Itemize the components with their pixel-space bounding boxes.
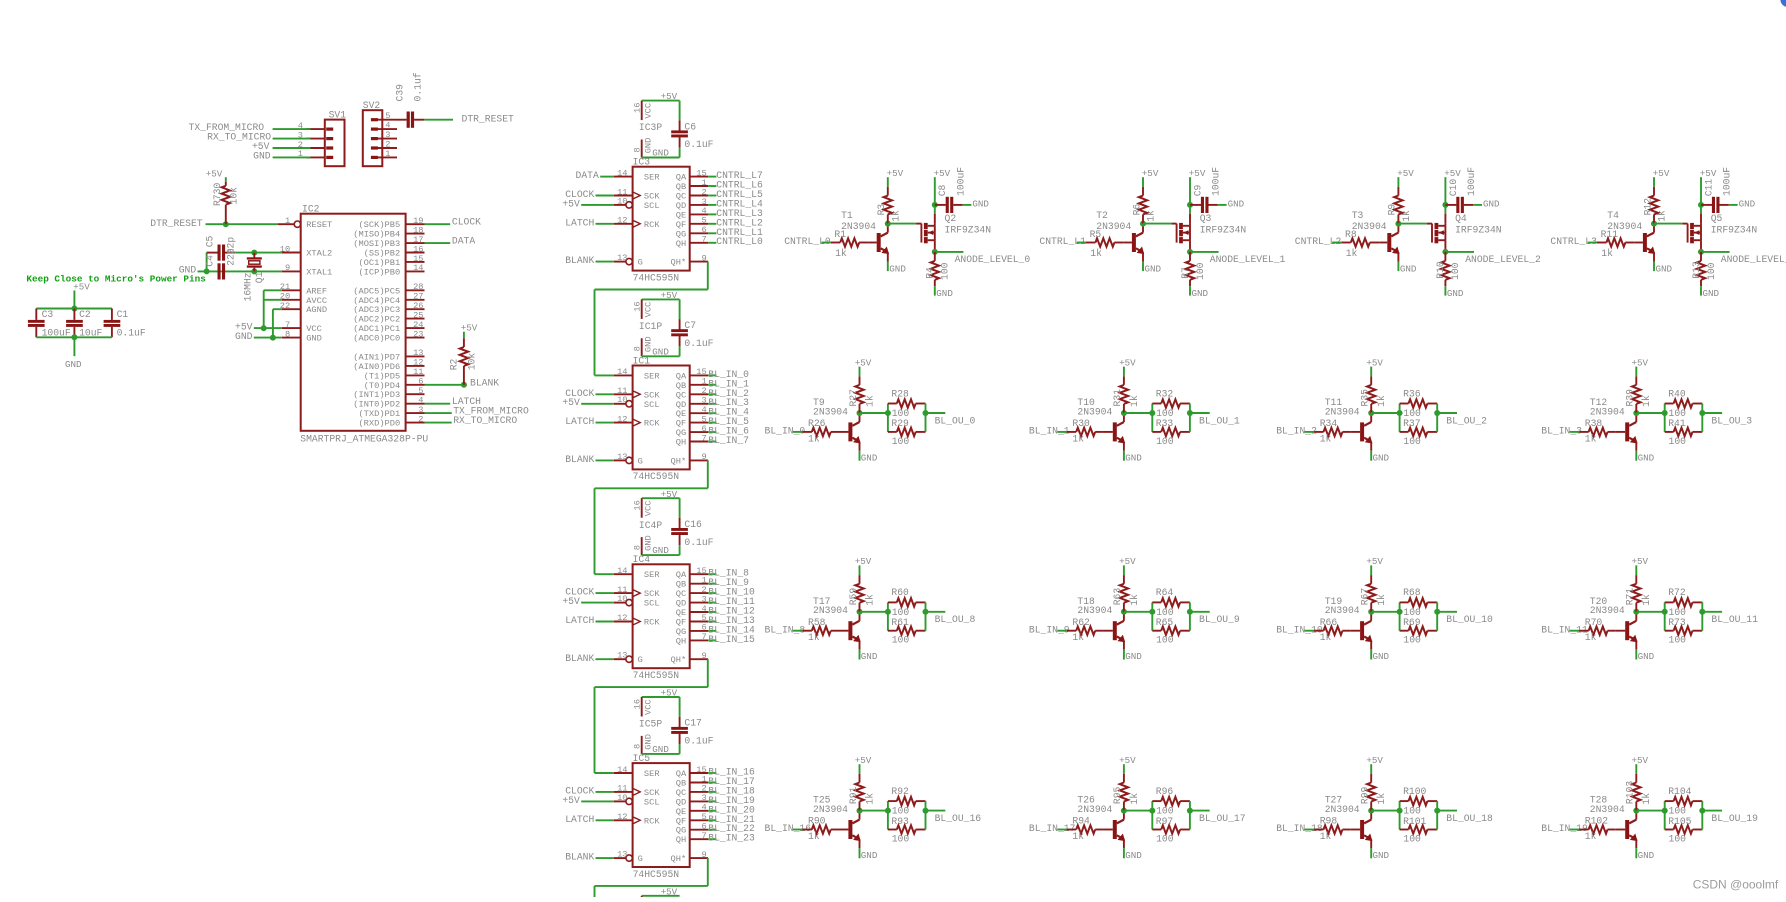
- node bank right junction: [923, 410, 929, 416]
- svg-text:R39: R39: [1625, 389, 1636, 407]
- wire CNTRL_L2 to R8: [1332, 242, 1341, 244]
- resistor R61 100: [888, 630, 897, 632]
- svg-text:R99: R99: [1360, 786, 1371, 804]
- svg-text:+5V: +5V: [1366, 556, 1383, 567]
- wire BL_IN_13: [708, 621, 716, 623]
- svg-text:25: 25: [413, 310, 423, 320]
- svg-text:2: 2: [701, 784, 706, 794]
- wire T1 collector to Q2 gate: [888, 223, 916, 225]
- svg-text:2N3904: 2N3904: [841, 221, 876, 232]
- IC2 pin 4 (INT0)PD2: [406, 403, 425, 405]
- svg-text:RCK: RCK: [644, 816, 660, 826]
- svg-text:QH*: QH*: [671, 456, 687, 466]
- node bank right junction: [1187, 609, 1193, 615]
- connector SV2 pin 5: [375, 119, 398, 121]
- svg-text:QA: QA: [676, 570, 687, 580]
- resistor R68 100: [1400, 601, 1409, 603]
- transistor T17 2N3904: [839, 630, 849, 632]
- svg-text:74HC595N: 74HC595N: [633, 471, 680, 482]
- wire +5V to IC3 SCL: [581, 204, 614, 206]
- wire GND to IC2 pin 8: [254, 337, 282, 339]
- wire bank left vertical: [887, 602, 889, 630]
- svg-text:QB: QB: [676, 182, 686, 192]
- wire bank left vertical: [1399, 602, 1401, 630]
- svg-text:DATA: DATA: [576, 170, 599, 181]
- wire BL_IN_18: [708, 791, 716, 793]
- IC2 pin 20 AVCC: [282, 299, 301, 301]
- resistor R34 1k: [1314, 431, 1324, 433]
- +5V supply at R27: [859, 367, 861, 377]
- wire ANODE_LEVEL_0: [935, 251, 964, 253]
- +5V supply at R9: [1397, 177, 1399, 187]
- svg-text:R29: R29: [891, 418, 909, 429]
- svg-text:+5V: +5V: [1632, 755, 1649, 766]
- wire Q5 drain: [1700, 240, 1702, 252]
- IC3 pin 1 QB: [690, 185, 708, 187]
- IC2 pin 28 (ADC5)PC5: [406, 289, 425, 291]
- IC IC2 SMARTPRJ_ATMEGA328P-PU body: [301, 214, 406, 431]
- node T26 collector junction: [1121, 808, 1127, 814]
- node T4 collector junction: [1651, 221, 1657, 227]
- wire BL_IN_3 to R38: [1570, 431, 1580, 433]
- wire T19 collector to resistor bank: [1371, 611, 1399, 613]
- svg-text:T1: T1: [841, 210, 853, 221]
- node +5V rail junction: [71, 306, 77, 312]
- svg-text:SCK: SCK: [644, 589, 660, 599]
- wire BL_IN_21: [708, 819, 716, 821]
- svg-text:9: 9: [701, 651, 706, 661]
- wire shift chain stage 4: [707, 858, 709, 886]
- svg-text:15: 15: [696, 765, 706, 775]
- svg-text:Q5: Q5: [1711, 213, 1723, 224]
- node bank left junction: [1397, 808, 1403, 814]
- node C4/GND junction: [204, 268, 210, 274]
- wire T25 collector: [859, 811, 861, 820]
- +5V supply at R103: [1635, 764, 1637, 774]
- wire BL_OU_17: [1190, 810, 1210, 812]
- capacitor C6 0.1uF: [679, 101, 681, 121]
- svg-text:1: 1: [385, 149, 390, 159]
- svg-text:+5V: +5V: [1189, 168, 1206, 179]
- IC2 pin 27 (ADC4)PC4: [406, 299, 425, 301]
- wire BL_OU_9: [1190, 611, 1210, 613]
- wire CNTRL_L5: [708, 195, 716, 197]
- svg-text:16: 16: [633, 301, 643, 311]
- IC5 pin 1 QB: [690, 782, 708, 784]
- svg-text:IRF9Z34N: IRF9Z34N: [1200, 224, 1247, 235]
- svg-text:+5V: +5V: [1119, 357, 1136, 368]
- wire T27 emitter to GND: [1370, 839, 1372, 848]
- svg-text:2N3904: 2N3904: [1352, 221, 1387, 232]
- svg-text:100: 100: [892, 834, 910, 845]
- resistor R35 1k: [1370, 404, 1372, 413]
- svg-text:R70: R70: [1585, 617, 1603, 628]
- IC2 pin 21 AREF: [282, 289, 301, 291]
- wire BL_IN_22: [708, 829, 716, 831]
- resistor R64 100: [1152, 601, 1161, 603]
- svg-text:R3: R3: [876, 204, 887, 216]
- wire bank left vertical: [1664, 404, 1666, 432]
- svg-text:+5V: +5V: [855, 755, 872, 766]
- node DTR_RESET / R730 junction: [223, 221, 229, 227]
- node T18 collector junction: [1121, 609, 1127, 615]
- IC2 pin 15 (OC1)PB1: [406, 261, 425, 263]
- wire AVCC: [264, 299, 282, 301]
- wire BL_IN_20: [708, 810, 716, 812]
- svg-text:(MISO)PB4: (MISO)PB4: [353, 230, 400, 240]
- svg-text:T3: T3: [1352, 210, 1364, 221]
- svg-text:23: 23: [413, 329, 423, 339]
- svg-text:R30: R30: [1072, 418, 1090, 429]
- svg-text:IC5: IC5: [633, 753, 651, 764]
- +5V supply at R71: [1635, 565, 1637, 575]
- +5V supply at R35: [1370, 367, 1372, 377]
- connector SV1 pin 2: [306, 147, 325, 149]
- svg-text:RCK: RCK: [644, 220, 660, 230]
- node T12 collector junction: [1633, 410, 1639, 416]
- resistor R90 1k: [802, 829, 812, 831]
- svg-text:+5V: +5V: [1366, 357, 1383, 368]
- svg-text:RX_TO_MICRO: RX_TO_MICRO: [453, 415, 517, 426]
- IC5 pin 2 QC: [690, 791, 708, 793]
- wire BL_IN_3: [708, 403, 716, 405]
- svg-text:12: 12: [413, 358, 423, 368]
- svg-text:+5V: +5V: [934, 168, 951, 179]
- svg-text:100: 100: [1195, 262, 1206, 280]
- IC2 pin 1 RESET: [278, 223, 294, 225]
- svg-text:GND: GND: [1125, 452, 1142, 463]
- svg-text:SCK: SCK: [644, 788, 660, 798]
- IC IC4 74HC595N body: [633, 564, 690, 668]
- svg-text:4: 4: [701, 803, 706, 813]
- svg-text:QF: QF: [676, 220, 686, 230]
- IC2 pin 13 (AIN1)PD7: [406, 355, 425, 357]
- svg-text:GND: GND: [235, 331, 253, 342]
- svg-text:0.1uF: 0.1uF: [684, 338, 713, 349]
- svg-text:18: 18: [413, 225, 423, 235]
- svg-text:R96: R96: [1156, 786, 1174, 797]
- wire CLOCK to IC1 SCK: [596, 393, 614, 395]
- svg-text:7: 7: [701, 235, 706, 245]
- resistor R28 100: [888, 403, 897, 405]
- capacitor C2 10uF: [73, 309, 75, 320]
- svg-text:4: 4: [701, 206, 706, 216]
- svg-text:R10: R10: [1435, 261, 1446, 279]
- wire T19 emitter to GND: [1370, 640, 1372, 649]
- svg-text:C6: C6: [684, 121, 696, 132]
- wire +5V rail: [36, 308, 112, 310]
- IC2 pin 16 (SS)PB2: [406, 252, 425, 254]
- wire T26 collector to resistor bank: [1124, 810, 1152, 812]
- svg-text:IRF9Z34N: IRF9Z34N: [1711, 224, 1758, 235]
- IC2 pin 22 AGND: [282, 308, 301, 310]
- svg-text:1k: 1k: [864, 594, 875, 606]
- svg-text:7: 7: [701, 433, 706, 443]
- wire C8 to GND: [963, 204, 972, 206]
- svg-text:T2: T2: [1096, 210, 1108, 221]
- svg-text:C9: C9: [1192, 184, 1203, 196]
- svg-text:+5V: +5V: [562, 596, 580, 607]
- wire LATCH to IC3 RCK: [596, 223, 614, 225]
- wire bank right vertical: [1701, 602, 1703, 630]
- svg-text:2: 2: [701, 585, 706, 595]
- wire T2 collector to Q3 gate: [1143, 223, 1171, 225]
- svg-text:IRF9Z34N: IRF9Z34N: [945, 224, 992, 235]
- svg-text:CSDN @ooolmf: CSDN @ooolmf: [1693, 877, 1779, 891]
- svg-text:7: 7: [701, 831, 706, 841]
- IC2 pin 6 (T0)PD4: [406, 384, 425, 386]
- svg-text:+5V: +5V: [1653, 168, 1670, 179]
- svg-text:R59: R59: [848, 588, 859, 606]
- IC3 pin 2 QC: [690, 195, 708, 197]
- svg-text:GND: GND: [1125, 651, 1142, 662]
- svg-text:R102: R102: [1585, 816, 1608, 827]
- wire T10 collector to resistor bank: [1124, 412, 1152, 414]
- svg-text:BL_OU_18: BL_OU_18: [1446, 813, 1493, 824]
- node bank left junction: [1149, 609, 1155, 615]
- capacitor C10 100uF: [1445, 204, 1456, 206]
- svg-text:BL_IN_7: BL_IN_7: [708, 435, 749, 446]
- resistor R37 100: [1400, 431, 1409, 433]
- wire bank right vertical: [1701, 404, 1703, 432]
- svg-text:GND: GND: [889, 263, 906, 274]
- wire BL_IN_2: [708, 393, 716, 395]
- svg-text:2N3904: 2N3904: [1077, 804, 1112, 815]
- svg-text:SER: SER: [644, 371, 660, 381]
- IC3 pin 13 G: [614, 261, 626, 263]
- IC2 pin 7 VCC: [282, 327, 301, 329]
- wire +5V to IC1 SCL: [581, 403, 614, 405]
- wire BL_IN_16 to R90: [793, 829, 803, 831]
- IC2 pin 26 (ADC3)PC3: [406, 308, 425, 310]
- wire bank right vertical: [925, 404, 927, 432]
- node bank right junction: [1699, 410, 1705, 416]
- IC2 pin 14 (ICP)PB0: [406, 270, 425, 272]
- svg-text:G: G: [638, 258, 643, 268]
- svg-text:14: 14: [617, 765, 627, 775]
- capacitor C9 100uF: [1190, 204, 1201, 206]
- capacitor C7 0.1uF: [679, 299, 681, 319]
- wire T28 collector: [1635, 811, 1637, 820]
- wire CNTRL_L6: [708, 185, 716, 187]
- IC3 pin 5 QF: [690, 223, 708, 225]
- IC5 pin 12 RCK: [614, 819, 633, 821]
- IC1 pin 2 QC: [690, 393, 708, 395]
- IC5 pin 4 QE: [690, 810, 708, 812]
- wire T11 emitter to GND: [1370, 442, 1372, 451]
- IC1 pin 15 QA: [690, 374, 708, 376]
- transistor T1 2N3904: [869, 242, 877, 244]
- svg-text:BLANK: BLANK: [565, 653, 594, 664]
- svg-text:IC4P: IC4P: [639, 520, 662, 531]
- wire BL_IN_7: [708, 441, 716, 443]
- wire BL_IN_10 to R66: [1305, 630, 1315, 632]
- svg-text:2N3904: 2N3904: [1077, 605, 1112, 616]
- svg-text:VCC: VCC: [643, 501, 653, 517]
- resistor R73 100: [1665, 630, 1674, 632]
- svg-text:SV2: SV2: [363, 100, 381, 111]
- IC5 pin 14 SER: [614, 772, 633, 774]
- node T11 collector junction: [1368, 410, 1374, 416]
- svg-text:IRF9Z34N: IRF9Z34N: [1455, 224, 1502, 235]
- ground at R13: [1700, 286, 1702, 295]
- svg-text:1k: 1k: [1129, 395, 1140, 407]
- resistor R94 1k: [1067, 829, 1076, 831]
- wire BL_IN_14: [708, 630, 716, 632]
- svg-text:15: 15: [696, 566, 706, 576]
- wire CLOCK to IC5 SCK: [596, 791, 614, 793]
- node ANODE_LEVEL_0 junction: [932, 249, 938, 255]
- svg-text:R41: R41: [1668, 418, 1686, 429]
- IC4 pin 7 QH: [690, 639, 708, 641]
- resistor R3 1k: [887, 214, 889, 223]
- resistor R102 1k: [1579, 829, 1589, 831]
- IC2 pin 19 (SCK)PB5: [406, 223, 425, 225]
- wire BL_OU_1: [1190, 412, 1210, 414]
- svg-text:2: 2: [701, 187, 706, 197]
- IC1 pin 10 SCL: [614, 403, 626, 405]
- resistor R58 1k: [802, 630, 812, 632]
- node crystal top junction: [251, 250, 257, 256]
- svg-text:1k: 1k: [1072, 433, 1084, 444]
- resistor R72 100: [1665, 601, 1674, 603]
- svg-text:+5V: +5V: [206, 168, 223, 179]
- resistor R98 1k: [1314, 829, 1324, 831]
- svg-text:7: 7: [701, 632, 706, 642]
- resistor R62 1k: [1067, 630, 1076, 632]
- svg-text:R64: R64: [1156, 587, 1174, 598]
- node bank right junction: [1699, 808, 1705, 814]
- wire CNTRL_L0 to R1: [822, 242, 831, 244]
- wire shift chain stage 2: [707, 460, 709, 488]
- +5V supply at R91: [859, 764, 861, 774]
- node T9 collector junction: [857, 410, 863, 416]
- wire T9 collector to resistor bank: [860, 412, 888, 414]
- wire bank left vertical: [887, 801, 889, 829]
- connector SV1 pin 1: [306, 156, 325, 158]
- wire CNTRL_L4: [708, 204, 716, 206]
- svg-text:QH: QH: [676, 438, 686, 448]
- svg-text:SCL: SCL: [644, 201, 660, 211]
- transistor T3 2N3904: [1379, 242, 1387, 244]
- svg-text:(INT1)PD3: (INT1)PD3: [353, 390, 400, 400]
- svg-text:2N3904: 2N3904: [1590, 605, 1625, 616]
- transistor T12 2N3904: [1615, 431, 1625, 433]
- IC1 pin 5 QF: [690, 422, 708, 424]
- wire bank right vertical: [1436, 602, 1438, 630]
- svg-text:R32: R32: [1156, 388, 1174, 399]
- svg-text:QH: QH: [676, 636, 686, 646]
- wire T17 collector: [859, 612, 861, 621]
- wire C11 to GND: [1729, 204, 1738, 206]
- svg-text:T4: T4: [1607, 210, 1619, 221]
- svg-text:8: 8: [285, 329, 290, 339]
- wire T19 collector: [1370, 612, 1372, 621]
- resistor R95 1k: [1123, 802, 1125, 811]
- resistor R92 100: [888, 800, 897, 802]
- IC1 pin 11 SCK: [614, 393, 633, 395]
- IC3 pin 3 QD: [690, 204, 708, 206]
- svg-text:ANODE_LEVEL_3: ANODE_LEVEL_3: [1721, 254, 1786, 265]
- svg-text:1k: 1k: [1320, 831, 1332, 842]
- svg-text:8: 8: [633, 346, 643, 351]
- wire T4 emitter to GND: [1653, 252, 1655, 261]
- node bank left junction: [885, 609, 891, 615]
- wire BL_IN_12: [708, 611, 716, 613]
- resistor R11 1k: [1597, 242, 1607, 244]
- svg-text:XTAL2: XTAL2: [306, 249, 332, 259]
- wire BL_OU_2: [1437, 412, 1457, 414]
- svg-text:12: 12: [617, 414, 627, 424]
- svg-text:1: 1: [285, 216, 290, 226]
- svg-text:C39: C39: [395, 84, 406, 102]
- wire BL_IN_8 to R58: [793, 630, 803, 632]
- wire T9 collector: [859, 413, 861, 422]
- connector SV2 pin 1: [375, 156, 398, 158]
- svg-text:1: 1: [701, 178, 706, 188]
- svg-text:DTR_RESET: DTR_RESET: [462, 114, 515, 125]
- wire bank left vertical: [1399, 801, 1401, 829]
- svg-text:(ADC2)PC2: (ADC2)PC2: [353, 315, 400, 325]
- resistor R33 100: [1152, 431, 1161, 433]
- node BLANK / R2 junction: [461, 382, 467, 388]
- IC1 pin 7 QH: [690, 441, 708, 443]
- svg-text:9: 9: [701, 253, 706, 263]
- svg-text:BL_OU_2: BL_OU_2: [1446, 415, 1487, 426]
- resistor R10 100: [1444, 252, 1446, 261]
- wire C9 to GND: [1218, 204, 1227, 206]
- wire C5 to IC2 XTAL2: [235, 252, 282, 254]
- wire +5V to IC2 pin 7: [254, 327, 282, 329]
- wire T28 emitter to GND: [1635, 839, 1637, 848]
- connector SV2: [363, 110, 383, 166]
- svg-text:GND: GND: [652, 744, 669, 755]
- svg-text:1k: 1k: [864, 395, 875, 407]
- wire T12 emitter to GND: [1635, 442, 1637, 451]
- wire T10 collector: [1123, 413, 1125, 422]
- resistor R70 1k: [1579, 630, 1589, 632]
- +5V supply at R39: [1635, 367, 1637, 377]
- wire BL_IN_0 to R26: [793, 431, 803, 433]
- +5V supply at R63: [1123, 565, 1125, 575]
- IC5 pin 9 QH*: [690, 857, 708, 859]
- svg-text:R98: R98: [1320, 816, 1338, 827]
- IC2 pin 25 (ADC2)PC2: [406, 318, 425, 320]
- IC1 pin 3 QD: [690, 403, 708, 405]
- svg-text:1k: 1k: [864, 793, 875, 805]
- svg-text:VCC: VCC: [306, 324, 322, 334]
- node bank left junction: [1662, 808, 1668, 814]
- svg-text:BL_IN_15: BL_IN_15: [708, 634, 755, 645]
- connector SV2 pin 2: [375, 147, 398, 149]
- +5V supply at R59: [859, 565, 861, 575]
- transistor Q2 IRF9Z34N: [920, 224, 922, 243]
- svg-text:IC1P: IC1P: [639, 321, 662, 332]
- svg-text:CLOCK: CLOCK: [452, 217, 481, 228]
- IC2 pin 17 (MOSI)PB3: [406, 242, 425, 244]
- svg-text:Q4: Q4: [1455, 213, 1467, 224]
- svg-text:LATCH: LATCH: [565, 217, 594, 228]
- svg-text:74HC595N: 74HC595N: [633, 670, 680, 681]
- svg-text:XTAL1: XTAL1: [306, 267, 332, 277]
- wire BL_IN_6: [708, 431, 716, 433]
- resistor R96 100: [1152, 800, 1161, 802]
- svg-text:R71: R71: [1625, 588, 1636, 606]
- wire T26 collector: [1123, 811, 1125, 820]
- svg-text:VCC: VCC: [643, 302, 653, 318]
- svg-text:2N3904: 2N3904: [1325, 406, 1360, 417]
- resistor R4 100: [934, 252, 936, 261]
